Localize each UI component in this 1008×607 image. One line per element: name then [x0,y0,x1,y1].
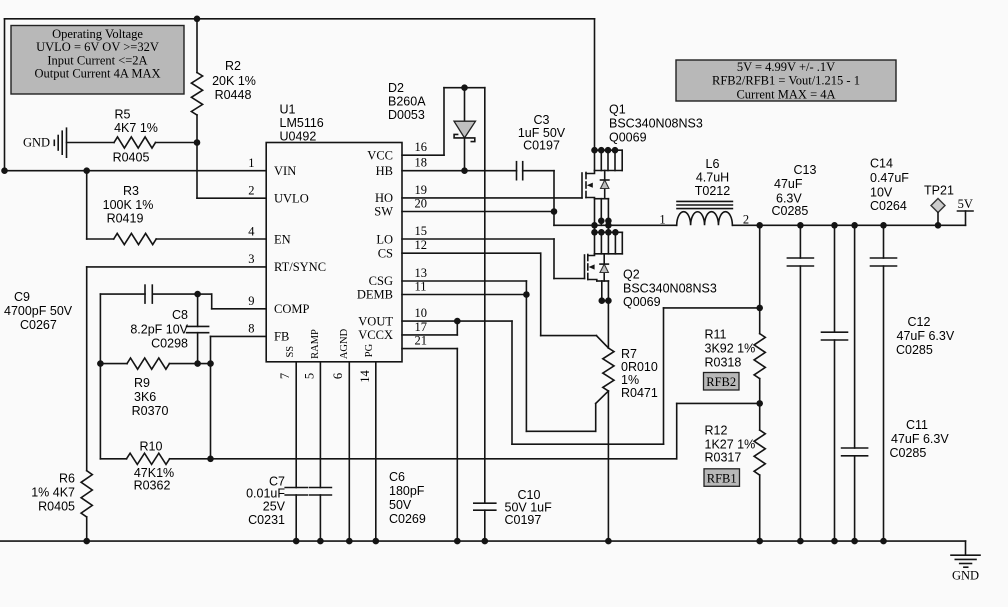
pin number L6-2 [743,213,749,227]
wire R11 bottom lead [759,379,761,404]
svg-text:13: 13 [415,266,428,280]
svg-text:4: 4 [248,225,255,239]
wire C9 top right [152,293,197,295]
svg-text:C0197: C0197 [523,139,560,153]
svg-text:RFB2: RFB2 [706,375,736,389]
resistor R11 [754,334,765,379]
pin name DEMB [357,288,393,302]
pin number 16 [415,140,428,154]
label U1 [280,102,324,143]
svg-text:SW: SW [374,205,393,219]
pin name AGND [339,328,350,359]
svg-text:GND: GND [23,135,50,149]
svg-text:Q2: Q2 [623,268,640,282]
svg-text:D2: D2 [388,81,404,95]
svg-text:Current MAX = 4A: Current MAX = 4A [736,88,835,102]
svg-text:PG: PG [364,343,375,357]
junction bus AGND [346,538,353,545]
svg-text:14: 14 [358,370,372,383]
junction rail TP21 [935,222,942,229]
svg-text:RFB2/RFB1 = Vout/1.215 - 1: RFB2/RFB1 = Vout/1.215 - 1 [712,74,860,88]
svg-text:8.2pF 10V: 8.2pF 10V [130,323,188,337]
svg-text:LO: LO [376,233,393,247]
wire ground bus [0,540,966,542]
svg-text:Input Current <=2A: Input Current <=2A [47,53,147,67]
capacitor C7 [285,488,307,542]
pin name COMP [274,302,309,316]
inductor L6 [677,201,733,225]
svg-text:C0285: C0285 [896,343,933,357]
wire input left vertical [4,19,6,171]
label C12 [896,315,955,357]
pin name UVLO [274,192,309,206]
node 5V flag [958,197,974,225]
pin name SW [374,205,393,219]
wire R7 to ground bus [607,391,609,541]
svg-text:8: 8 [248,322,254,336]
ground GND bottom symbol [951,541,980,582]
svg-text:R0317: R0317 [705,451,742,465]
svg-text:47uF 6.3V: 47uF 6.3V [891,432,949,446]
resistor R12 [754,430,765,475]
wire FB [211,336,267,363]
svg-text:R7: R7 [621,347,637,361]
wire CSG pin13 [402,281,526,295]
svg-text:20K 1%: 20K 1% [212,74,256,88]
wire COMP [198,294,267,309]
svg-text:R0405: R0405 [38,500,75,514]
svg-text:C8: C8 [172,308,188,322]
junction CSG/DEMB [523,291,530,298]
svg-text:25V: 25V [263,500,286,514]
pin number 11 [415,280,427,294]
svg-text:EN: EN [274,232,291,246]
junction bus C12 [831,538,838,545]
svg-text:Operating Voltage: Operating Voltage [52,27,143,41]
svg-text:10V: 10V [870,185,893,199]
ground GND left symbol [23,128,67,157]
pin number 6 [331,373,345,379]
svg-text:R3: R3 [123,184,139,198]
svg-text:RAMP: RAMP [310,329,321,359]
svg-text:3K6: 3K6 [134,390,156,404]
svg-text:R0448: R0448 [215,88,252,102]
wire R10 left lead [100,458,126,460]
wire output rail [733,224,966,226]
note operating voltage box [11,26,184,95]
svg-text:C13: C13 [794,163,817,177]
junction R11 top [756,305,763,312]
svg-text:C0231: C0231 [248,513,285,527]
svg-text:Q0069: Q0069 [623,295,661,309]
wire D2 top rail [444,87,485,89]
svg-text:3K92 1%: 3K92 1% [705,342,756,356]
transistor Q2 source comb [597,281,612,304]
wire SW pin20 [402,211,554,213]
svg-text:HB: HB [376,164,393,178]
wire LO pin15 [402,239,585,279]
wire pin21 to ground [402,349,457,541]
pin number 10 [415,306,428,320]
svg-text:C0269: C0269 [389,512,426,526]
pin number 7 [278,373,292,379]
svg-text:0R010: 0R010 [621,360,658,374]
wire RAMP pin5 [319,362,321,488]
wire HB pin18 [402,170,517,172]
pin number 8 [248,322,254,336]
svg-text:0.47uF: 0.47uF [870,171,909,185]
label C11 [890,418,950,460]
svg-text:RT/SYNC: RT/SYNC [274,260,326,274]
svg-text:C6: C6 [389,470,405,484]
wire DEMB pin11 [402,294,526,296]
junction R2/R5 [194,139,201,146]
svg-text:6: 6 [331,373,345,379]
svg-text:Q0069: Q0069 [609,131,647,145]
svg-text:7: 7 [278,373,292,379]
pin name VOUT [358,314,393,328]
transistor Q2 drain comb [591,225,622,254]
svg-text:B260A: B260A [388,95,426,109]
resistor R2 [191,19,202,143]
label TP21 [924,184,954,198]
junction R10/FB node [207,456,214,463]
pin number 9 [248,294,254,308]
pin number 12 [415,238,428,252]
svg-text:FB: FB [274,330,289,344]
wire VCC pin16 [402,88,444,156]
junction rail C12 [831,222,838,229]
pin number 1 [248,156,254,170]
resistor R5 [114,137,156,148]
junction Q1 source / SW [591,222,612,229]
label C3 [518,113,566,153]
pin number 14 [358,370,372,383]
junction R2 top [194,15,201,22]
pin number 21 [415,334,428,348]
svg-text:1% 4K7: 1% 4K7 [31,486,75,500]
svg-text:1: 1 [248,156,254,170]
pin name CSG [369,274,393,288]
wire comp left vertical [99,294,101,459]
svg-text:5V = 4.99V +/- .1V: 5V = 4.99V +/- .1V [737,60,835,74]
capacitor C12 [822,225,848,541]
resistor R3 [114,233,157,244]
svg-text:4700pF 50V: 4700pF 50V [4,304,73,318]
junction bus C6 [317,538,324,545]
note output box [676,60,896,102]
node RFB1 [704,469,740,487]
pin name FB [274,330,289,344]
transistor Q2 body diode [600,254,608,281]
wire Q2 source to R7 [607,301,609,348]
svg-text:DEMB: DEMB [357,288,393,302]
junction COMP/C8 [194,291,201,298]
label R11 [705,328,756,370]
pin name VCC [367,148,393,162]
junction D2/HB [461,167,468,174]
wire R11 top lead [759,225,761,333]
svg-text:180pF: 180pF [389,484,425,498]
capacitor C9 [145,285,152,303]
pin number 18 [415,156,428,170]
label Q2 [623,268,717,310]
junction bus R6 [83,538,90,545]
node RFB2 [704,373,740,391]
junction bus C13 [797,538,804,545]
label R12 [705,424,756,465]
wire C3 to SW [523,171,554,226]
svg-text:18: 18 [415,156,428,170]
svg-text:COMP: COMP [274,302,309,316]
op-amp U1 LM5116 box [266,143,402,362]
svg-text:UVLO = 6V OV >=32V: UVLO = 6V OV >=32V [36,40,159,54]
label R2 [212,59,256,102]
svg-text:TP21: TP21 [924,184,954,198]
svg-text:0.01uF: 0.01uF [246,487,285,501]
svg-text:5V: 5V [958,197,973,211]
svg-text:47uF 6.3V: 47uF 6.3V [897,329,955,343]
svg-text:2: 2 [248,183,254,197]
svg-text:100K 1%: 100K 1% [103,198,154,212]
capacitor C8 [187,294,209,364]
pin number 2 [248,183,254,197]
wire R6 to ground bus [86,517,88,541]
svg-text:R11: R11 [705,328,727,342]
capacitor C10 line [474,88,496,541]
label C7 [246,475,286,528]
test point TP21 [931,199,945,226]
junction VOUT/VCCX [454,318,461,325]
pin name EN [274,232,291,246]
svg-text:C0197: C0197 [505,513,542,527]
svg-text:Q1: Q1 [609,103,626,117]
svg-text:12: 12 [415,238,428,252]
svg-text:C0267: C0267 [20,318,57,332]
svg-text:21: 21 [415,334,428,348]
capacitor C11 [842,225,868,541]
wire VIN bus [5,170,267,172]
junction rail C11 [851,222,858,229]
svg-text:17: 17 [415,320,428,334]
svg-text:C11: C11 [906,418,928,432]
pin name VIN [274,164,296,178]
pin name VCCX [358,328,393,342]
transistor Q1 drain comb [591,147,622,171]
svg-text:1%: 1% [621,373,639,387]
label C13 [772,163,817,218]
wire VOUT to feedback divider [512,308,760,444]
wire FB down to R10 [210,364,212,459]
junction bus R12 [756,538,763,545]
svg-text:C3: C3 [534,113,550,127]
svg-text:T0212: T0212 [695,184,730,198]
wire HO pin19 [402,197,582,199]
svg-text:R10: R10 [140,440,163,454]
svg-text:10: 10 [415,306,428,320]
label C8 [130,308,188,351]
svg-text:R2: R2 [225,59,241,73]
pin number 20 [415,197,428,211]
junction VIN/R3 [83,167,90,174]
transistor Q1 source comb [595,199,612,226]
svg-text:VOUT: VOUT [358,314,393,328]
label C14 [870,157,909,214]
svg-text:3: 3 [248,252,254,266]
svg-text:BSC340N08NS3: BSC340N08NS3 [623,282,717,296]
pin number L6-1 [659,213,665,227]
svg-text:R0370: R0370 [132,404,169,418]
svg-text:R6: R6 [59,472,75,486]
wire AGND pin6 [348,362,350,541]
pin name RAMP [310,329,321,359]
label R5 [113,108,158,165]
capacitor C14 [871,225,897,541]
wire Q1 drain feed [594,19,596,150]
svg-text:1K27 1%: 1K27 1% [705,438,756,452]
pin number 13 [415,266,428,280]
svg-text:VIN: VIN [274,164,296,178]
label L6 [695,157,730,198]
junction bus C14 [880,538,887,545]
label R3 [103,184,154,226]
label R7 [621,347,658,400]
svg-text:D0053: D0053 [388,108,425,122]
capacitor C13 [787,225,813,541]
junction rail C14 [880,222,887,229]
junction R9/FB [207,360,214,367]
svg-text:CSG: CSG [369,274,393,288]
wire R12 top lead [759,403,761,430]
svg-text:GND: GND [952,569,979,583]
junction bus R7 [605,538,612,545]
capacitor C6 [309,488,331,542]
svg-text:RFB1: RFB1 [707,471,737,485]
resistor R6 [81,471,92,517]
pin number 5 [303,373,317,379]
resistor R7 [603,348,614,391]
svg-text:VCC: VCC [367,148,393,162]
capacitor C3 [517,162,523,180]
svg-text:C12: C12 [908,315,931,329]
svg-text:U0492: U0492 [280,129,317,143]
svg-text:19: 19 [415,183,428,197]
svg-text:9: 9 [248,294,254,308]
svg-text:R0471: R0471 [621,386,658,400]
transistor Q2 mosfet symbol [585,254,597,281]
svg-text:BSC340N08NS3: BSC340N08NS3 [609,117,703,131]
svg-text:4.7uH: 4.7uH [696,171,729,185]
svg-text:C0298: C0298 [151,337,188,351]
svg-text:5: 5 [303,373,317,379]
pin name LO [376,233,393,247]
label R9 [132,376,169,418]
wire C9 left [100,293,145,295]
diode D2 [454,88,476,171]
svg-text:Output Current 4A MAX: Output Current 4A MAX [34,67,160,81]
junction bus C7 [293,538,300,545]
resistor R9 [100,358,210,369]
wire SW rail [554,224,677,226]
wire CS pin12 [402,253,608,348]
pin name HO [375,191,393,205]
svg-text:C0285: C0285 [772,204,809,218]
wire GND to R5 [67,142,115,144]
transistor Q1 body diode [601,171,609,199]
label Q1 [609,103,703,145]
pin name SS [285,346,296,358]
junction bus C10 [482,538,489,545]
pin name RT/SYNC [274,260,326,274]
transistor Q1 mosfet symbol [582,171,595,226]
wire PG pin14 [375,362,377,541]
svg-text:R12: R12 [705,424,728,438]
pin number 15 [415,224,428,238]
pin name CS [378,246,393,260]
svg-text:4K7 1%: 4K7 1% [114,121,158,135]
svg-text:15: 15 [415,224,428,238]
svg-text:AGND: AGND [339,328,350,359]
svg-text:VCCX: VCCX [358,328,393,342]
junction bus C11 [851,538,858,545]
svg-text:R0419: R0419 [107,212,144,226]
junction input corner [1,167,8,174]
wire input top rail [5,18,595,20]
junction rail R11 [756,222,763,229]
wire R12 bottom lead [759,475,761,541]
svg-text:50V: 50V [389,498,412,512]
svg-text:LM5116: LM5116 [280,116,324,130]
svg-text:C0264: C0264 [870,199,907,213]
label R6 [31,472,75,514]
svg-text:C9: C9 [14,290,30,304]
svg-text:L6: L6 [706,157,720,171]
svg-text:UVLO: UVLO [274,192,309,206]
label C10 [505,488,553,527]
wire R3 to EN [156,238,266,240]
label C9 [4,290,73,332]
pin number 4 [248,225,255,239]
svg-text:R9: R9 [134,376,150,390]
pin name HB [376,164,393,178]
pin number 3 [248,252,254,266]
wire R3 branch [87,171,114,239]
svg-text:1: 1 [659,213,665,227]
svg-text:47uF: 47uF [774,177,803,191]
svg-text:R0405: R0405 [113,151,150,165]
wire VCCX pin17 [402,321,457,335]
label R10 [134,440,175,493]
svg-text:C14: C14 [870,157,893,171]
junction R9 left [97,360,104,367]
wire FB node to divider [170,403,760,458]
svg-text:C0285: C0285 [890,446,927,460]
junction D2 anode [461,84,468,91]
svg-text:U1: U1 [280,102,296,116]
svg-text:SS: SS [285,346,296,358]
junction bus PG [373,538,380,545]
junction SW [551,208,558,215]
wire CSG to R7 bottom [526,295,608,432]
wire VOUT pin10 [402,320,512,322]
pin number 17 [415,320,428,334]
wire RT/SYNC to R6 [87,267,267,471]
pin number 19 [415,183,428,197]
svg-text:HO: HO [375,191,393,205]
label D2 [388,81,426,122]
wire SS pin7 [295,362,297,488]
svg-text:R0318: R0318 [705,356,742,370]
